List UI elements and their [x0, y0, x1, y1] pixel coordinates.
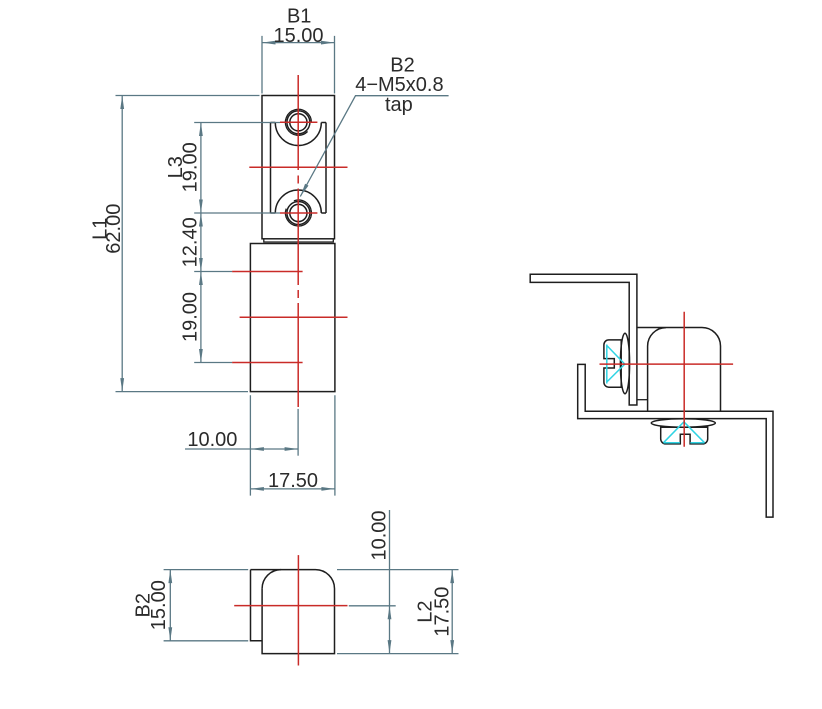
red centerline body middle	[240, 316, 348, 318]
dimension L2: arrowheads	[450, 570, 454, 584]
red horizontal centerline right view	[600, 363, 734, 365]
dimension 17.50 front: arrowheads	[250, 487, 264, 491]
red cross upper hole	[280, 121, 317, 123]
left screw washer ellipse	[620, 333, 629, 394]
tapped hole lower: thread arc	[285, 200, 311, 226]
bottom screw head	[661, 427, 708, 444]
dimension B2: extension lines	[164, 570, 249, 641]
counterbore arc lower hole	[275, 190, 321, 213]
bottom view body left corner arc	[262, 570, 281, 589]
lower frame panel L-bracket	[578, 364, 773, 517]
dimension L2: extension lines	[337, 570, 459, 654]
svg-text:15.00: 15.00	[148, 580, 170, 630]
hinge body side view	[637, 328, 721, 412]
dimension 19.00 lower: extension line	[194, 362, 232, 364]
dimension 10.00 bottom: arrowheads	[388, 606, 392, 620]
dimension B1: dimension line	[262, 42, 335, 44]
counterbore arc upper hole	[275, 123, 321, 146]
dimension 10.00 front: extension line	[297, 409, 299, 456]
bottom view plate edge	[251, 570, 263, 641]
dimension L1: arrowheads	[120, 96, 124, 110]
dimension L1: extension lines	[116, 96, 260, 392]
red horizontal centerline bottom view	[234, 605, 347, 607]
bottom screw cross-recess symbol	[664, 422, 705, 443]
svg-text:17.50: 17.50	[432, 587, 454, 637]
dimension L1: dimension line	[121, 96, 123, 392]
front view body outline	[250, 244, 335, 392]
svg-text:17.50: 17.50	[268, 470, 318, 492]
collar step side view	[637, 399, 648, 401]
svg-text:tap: tap	[385, 94, 413, 116]
dimension 10.00 bottom: dimension line	[389, 510, 391, 654]
left screw head	[604, 340, 621, 387]
upper door panel L-bracket	[530, 274, 637, 405]
dimension 10.00 bottom: extension line	[349, 605, 396, 607]
svg-text:15.00: 15.00	[273, 25, 323, 47]
tapped hole upper: major circle	[287, 111, 310, 134]
svg-text:19.00: 19.00	[180, 142, 202, 192]
dimension 17.50 front: dimension line	[250, 488, 335, 490]
red cross lower hole	[280, 212, 317, 214]
dimension B2: dimension line	[169, 570, 171, 641]
dimension L3: arrowheads	[199, 123, 203, 137]
red vertical centerline bottom view	[297, 555, 299, 665]
dimension B1: extension lines	[262, 36, 335, 94]
dimension 10.00 front: dimension line	[185, 448, 298, 450]
bottom view body outline	[251, 570, 335, 654]
dimension L3: dimension line	[200, 123, 202, 214]
dimension 12.40: extension line	[194, 271, 232, 273]
dimension L2: dimension line	[451, 570, 453, 654]
leader line B2 tap	[300, 96, 448, 197]
dimension 10.00 front: arrowheads	[250, 447, 264, 451]
leader arrowhead	[300, 184, 308, 197]
dimension 19.00 lower: arrowheads	[199, 272, 203, 286]
red centerline pivot 12.40	[232, 271, 303, 273]
tapped hole upper: minor circle	[290, 114, 307, 131]
dimension B1: arrowheads	[262, 41, 276, 45]
svg-text:12.40: 12.40	[180, 217, 202, 267]
dimension 17.50 front: extension lines	[250, 395, 335, 495]
front view plate outline	[262, 96, 335, 239]
svg-text:4−M5x0.8: 4−M5x0.8	[355, 74, 443, 96]
dimension L3: extension lines	[194, 123, 280, 214]
dimension 12.40: dimension line	[200, 213, 202, 272]
dimension B2: arrowheads	[168, 570, 172, 584]
dimension 12.40: arrowheads	[199, 213, 203, 227]
svg-text:19.00: 19.00	[180, 292, 202, 342]
svg-text:10.00: 10.00	[187, 429, 237, 451]
bottom screw washer ellipse	[651, 419, 715, 427]
left screw cross-recess symbol	[607, 345, 625, 384]
red vertical centerline right view	[683, 312, 685, 447]
svg-text:62.00: 62.00	[103, 204, 125, 254]
tapped hole lower: major circle	[287, 202, 310, 225]
svg-text:10.00: 10.00	[369, 510, 391, 560]
front view inner slot contour	[271, 123, 327, 214]
red vertical centerline front view	[297, 75, 299, 407]
tapped hole lower: minor circle	[290, 204, 307, 221]
front view collar step	[264, 239, 334, 242]
dimension 19.00 lower: dimension line	[200, 272, 202, 363]
red centerline lower 19.00	[232, 362, 303, 364]
red centerline plate middle	[249, 166, 347, 168]
tapped hole upper: thread arc	[285, 109, 311, 135]
